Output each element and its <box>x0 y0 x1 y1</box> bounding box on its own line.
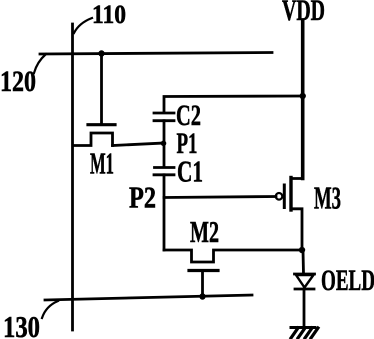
node: junction dot on VDD line <box>300 93 306 99</box>
svg-text:OELD: OELD <box>321 264 374 297</box>
transistor M2 source/drain with channel notch <box>164 250 302 262</box>
svg-text:110: 110 <box>92 0 126 29</box>
ground bar <box>291 326 315 329</box>
wire: data line 110 (vertical) <box>71 24 74 330</box>
capacitor C2 bottom plate <box>154 119 174 122</box>
leader line for 120 <box>34 54 46 73</box>
wire: scan line 130 (horizontal bottom) <box>45 295 252 300</box>
node P1 junction dot <box>161 141 167 147</box>
leader line for 130 <box>42 301 58 318</box>
svg-text:M3: M3 <box>314 180 341 216</box>
svg-text:M1: M1 <box>90 146 114 181</box>
transistor M2 gate bar <box>189 269 218 272</box>
transistor M3 channel bar emphasize <box>289 178 292 211</box>
transistor M1 gate bar <box>88 123 115 126</box>
transistor M3 source arm and channel <box>291 179 303 251</box>
capacitor C1 top plate <box>155 166 175 169</box>
node: junction dot M1 gate on 120 line <box>98 50 104 56</box>
node: junction dot M3 drain / M2 / OELD <box>299 247 305 253</box>
wire: column C2 bottom to C1 top <box>163 121 166 166</box>
wire: column C1 bottom to node P2 and down to M2 <box>163 175 166 250</box>
wire: VDD supply line (vertical) <box>301 21 305 179</box>
wire: M1 gate lead <box>100 54 103 123</box>
transistor M1 channel bump and source/drain <box>74 133 113 146</box>
capacitor C2 top plate <box>154 112 174 115</box>
svg-text:120: 120 <box>0 65 36 98</box>
svg-text:VDD: VDD <box>282 0 325 27</box>
wire: scan line 120 (horizontal) <box>40 53 272 55</box>
wire: node P2 horizontal to M3 gate <box>164 197 276 198</box>
diode OELD anode bar <box>295 273 315 276</box>
wire: diode cathode to ground <box>303 289 306 327</box>
ground hatch strokes <box>291 328 318 338</box>
svg-text:130: 130 <box>3 309 40 339</box>
wire: top horizontal from C2 to VDD <box>164 96 303 112</box>
svg-text:P2: P2 <box>129 180 156 215</box>
transistor M3 gate bubble <box>276 193 283 200</box>
leader line for 110 <box>74 18 92 33</box>
wire: drain junction down to diode <box>302 250 305 274</box>
wire: M1 drain to node P1 <box>113 143 165 146</box>
node: junction dot M2 gate on 130 line <box>199 293 205 299</box>
diode OELD cathode bar <box>295 288 314 291</box>
svg-text:M2: M2 <box>190 214 219 249</box>
capacitor C1 bottom plate <box>154 173 174 176</box>
diode OELD triangle <box>296 275 314 288</box>
transistor M3 gate bar <box>283 185 286 208</box>
svg-text:C1: C1 <box>177 154 203 189</box>
wire: M2 gate lead <box>201 271 204 297</box>
